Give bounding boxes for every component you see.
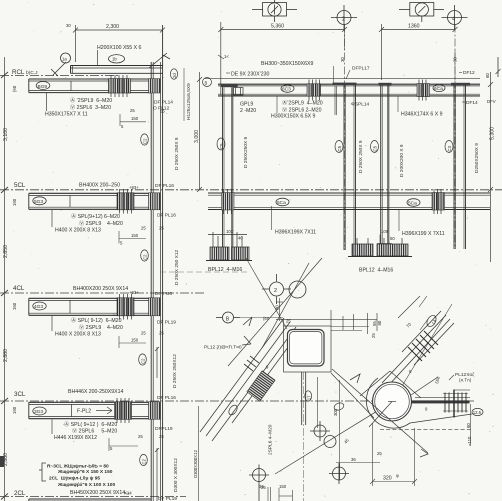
- dims 80 ~110 right side: [380, 404, 473, 446]
- grid line 4 dash: [454, 25, 456, 250]
- splice hatch on BG beam: [109, 79, 131, 93]
- beam mark BG4 ellipse: [36, 82, 50, 90]
- bolt circle lower left: [249, 465, 269, 501]
- bottom left Japanese note block: [47, 464, 115, 488]
- pipe radius line: [369, 402, 392, 428]
- svg-text:DF PL16: DF PL16: [155, 183, 174, 189]
- svg-text:D 200X200 X 9: D 200X200 X 9: [399, 144, 405, 177]
- svg-text:Ⓐ SPL( 9-12) 6–M20: Ⓐ SPL( 9-12) 6–M20: [71, 316, 122, 324]
- splice hatch right beam: [417, 84, 430, 97]
- svg-text:150: 150: [131, 338, 139, 343]
- svg-text:ΦSPL14: ΦSPL14: [351, 102, 370, 108]
- slashed circle (brace axis marker): [289, 281, 306, 298]
- svg-text:1360: 1360: [408, 24, 420, 30]
- svg-text:Ⓥ 2SPL6 3–M20: Ⓥ 2SPL6 3–M20: [70, 103, 111, 111]
- svg-text:2: 2: [274, 288, 277, 294]
- svg-text:GPL9: GPL9: [240, 102, 253, 108]
- svg-text:C3: C3: [447, 145, 452, 151]
- dim 80 vertical at top of detail: [276, 298, 283, 321]
- svg-text:Ⓥ 2SPL6 2–M20: Ⓥ 2SPL6 2–M20: [282, 106, 322, 114]
- svg-text:Жщφжψṗẋ"6 X 100 X 100: Жщφжψṗẋ"6 X 100 X 100: [57, 482, 115, 488]
- svg-text:1a: 1a: [62, 57, 67, 62]
- pipe inner ring: [375, 384, 410, 419]
- column joint hatch at RCL: [149, 79, 161, 93]
- beam mark 3G3: [33, 407, 46, 415]
- svg-text:5Ca: 5Ca: [277, 200, 286, 206]
- svg-text:DFV: DFV: [487, 99, 496, 104]
- marker ellipse on centerline: [333, 402, 345, 412]
- svg-text:R~3CL ЖЩзψльт-ЬṽЬ = 80: R~3CL ЖЩзψльт-ЬṽЬ = 80: [47, 464, 109, 470]
- svg-text:H396X199X 7X11: H396X199X 7X11: [275, 230, 316, 236]
- svg-text:2SPL6 4–M20: 2SPL6 4–M20: [268, 424, 274, 455]
- svg-text:2d: 2d: [172, 73, 177, 78]
- svg-text:1b: 1b: [112, 57, 117, 62]
- level tick 3CL: [1, 398, 8, 404]
- 70 dim ticks: [419, 296, 428, 330]
- column A (mid-elev left): [223, 87, 233, 247]
- left edge smudge: [0, 456, 4, 467]
- column joint hatch 4CL: [149, 298, 161, 316]
- top of steel line: [205, 78, 480, 80]
- svg-text:25: 25: [261, 485, 266, 490]
- svg-text:RCL b(C.J: RCL b(C.J: [12, 69, 38, 76]
- splice hatch 4CL: [117, 298, 134, 316]
- diagonal line to square corner: [246, 258, 287, 329]
- svg-text:H400 X 200X 8 X13: H400 X 200X 8 X13: [55, 228, 101, 234]
- slash axis steep through circle: [262, 263, 309, 348]
- svg-text:C2: C2: [143, 138, 148, 144]
- svg-text:6Ca: 6Ca: [434, 86, 443, 92]
- column mark ellipses mid elevation: [217, 138, 343, 153]
- splice hatch mid beam: [307, 84, 321, 96]
- 5CL level line: [0, 189, 502, 191]
- svg-text:H350X175X7 X 11: H350X175X7 X 11: [45, 112, 88, 118]
- svg-text:36: 36: [351, 457, 356, 462]
- top tick near column: [218, 55, 224, 59]
- brace from square to lower right with arrow: [331, 369, 428, 457]
- svg-text:100: 100: [381, 229, 389, 234]
- 4CL level line: [0, 292, 206, 294]
- svg-text:C2: C2: [141, 358, 146, 364]
- svg-text:5Ca: 5Ca: [408, 201, 417, 207]
- right column (grid B side): [381, 85, 389, 246]
- brace rung ticks: [244, 356, 259, 371]
- svg-text:φ: φ: [396, 473, 399, 478]
- svg-text:DF12: DF12: [463, 70, 475, 76]
- svg-text:BH400X200 250X 9X14: BH400X200 250X 9X14: [73, 286, 128, 292]
- svg-text:3,000: 3,000: [194, 130, 200, 143]
- svg-text:4G3: 4G3: [34, 304, 43, 310]
- svg-text:C5: C5: [219, 143, 224, 149]
- pipe center tick: [388, 401, 396, 403]
- svg-text:5CL: 5CL: [14, 182, 26, 189]
- svg-text:+93+: +93+: [129, 290, 139, 295]
- faint guide under label: [160, 271, 250, 273]
- svg-text:D 250X 250X12: D 250X 250X12: [172, 354, 178, 388]
- 3CL level line / detail centerline: [0, 400, 474, 402]
- svg-text:150: 150: [131, 116, 139, 121]
- level labels: [12, 69, 38, 497]
- dim 300 vertical lines: [318, 377, 340, 480]
- svg-text:25: 25: [159, 331, 164, 336]
- svg-text:C5: C5: [337, 145, 342, 151]
- svg-text:C5: C5: [373, 145, 378, 151]
- marker circle 1b top: [61, 53, 125, 63]
- svg-text:D 250X 250X 9: D 250X 250X 9: [358, 140, 364, 173]
- left margin dimension line: [4, 57, 6, 501]
- brace member upper right (to pipe): [382, 311, 454, 387]
- joint hatch at column A 5CL: [222, 193, 235, 210]
- column joint hatch 5CL: [149, 193, 161, 210]
- right edge scan marks: [497, 57, 499, 77]
- diagonal from pipe center to lower-left: [275, 403, 391, 475]
- dim 1360: [379, 24, 458, 80]
- top dimension line of detail: [276, 310, 377, 334]
- storey dims rotated: [3, 128, 9, 466]
- splice hatch right 5CL beam: [432, 193, 445, 210]
- svg-text:25: 25: [141, 331, 146, 336]
- grid line B horizontal: [240, 317, 283, 319]
- svg-text:DFPL17: DFPL17: [352, 66, 370, 72]
- 320 dia dimension: [370, 423, 417, 486]
- grid circle B small left: [203, 78, 212, 87]
- svg-text:3CL: 3CL: [14, 391, 26, 398]
- mid beam mark ellipse 6C3: [281, 85, 294, 93]
- square tube column 250 (plan): [288, 330, 325, 367]
- svg-text:H300X150X 6.5X 9: H300X150X 6.5X 9: [271, 114, 316, 120]
- pipe outer ring: [373, 382, 412, 421]
- bracket right of column A: [234, 88, 244, 96]
- svg-text:BH446X 200-250X9X14: BH446X 200-250X9X14: [68, 389, 123, 395]
- svg-text:(90: (90: [12, 85, 17, 92]
- right margin dim line 5,300: [488, 72, 493, 262]
- column stem below square: [302, 372, 306, 425]
- svg-text:25: 25: [159, 434, 164, 439]
- 2CL beam top flange: [29, 499, 151, 501]
- cap plate column 2: [333, 83, 357, 85]
- brace mark ellipse 14: [425, 314, 438, 328]
- svg-text:80: 80: [377, 320, 382, 325]
- svg-text:40: 40: [238, 236, 243, 241]
- svg-text:D 250X 250 X12: D 250X 250 X12: [174, 249, 180, 285]
- svg-text:DF PL19: DF PL19: [157, 320, 176, 326]
- svg-text:~110: ~110: [467, 436, 472, 446]
- column marks right elevation: [371, 141, 454, 153]
- svg-text:(60: (60: [263, 316, 270, 321]
- svg-text:2CL Шẏжψл-Lṽμ ψ 95: 2CL Шẏжψл-Lṽμ ψ 95: [49, 476, 100, 482]
- gusset wrap arc: [366, 378, 472, 428]
- bottom-centre small dims: [268, 487, 293, 501]
- level tick 2CL: [1, 494, 8, 500]
- svg-text:DF PU6: DF PU6: [155, 291, 172, 297]
- svg-text:H125x125x6,5X9: H125x125x6,5X9: [186, 83, 192, 120]
- svg-text:30: 30: [340, 57, 345, 62]
- column centerline below: [303, 372, 305, 501]
- svg-text:3,100: 3,100: [3, 128, 9, 141]
- svg-text:(א.Tה): (א.Tה): [459, 378, 472, 383]
- svg-text:BPL12 4–M16: BPL12 4–M16: [359, 268, 393, 274]
- column joint hatch 3CL: [149, 402, 161, 420]
- 2CL level line: [0, 496, 186, 498]
- dim 2,300 at top: [73, 25, 165, 62]
- column cut mark at top: [51, 53, 170, 76]
- brace splice hatch (rotated): [247, 371, 275, 401]
- svg-text:2CL: 2CL: [14, 490, 26, 497]
- column size rotated labels: [172, 137, 180, 492]
- brace lines at pipe top: [360, 371, 438, 398]
- slashed bolt circle: [324, 436, 336, 448]
- inter-level dim arrow on column: [155, 347, 159, 378]
- marker 2d ellipse right of column at RCL: [170, 69, 177, 79]
- svg-text:30: 30: [66, 23, 71, 28]
- svg-text:DF PL16: DF PL16: [157, 213, 176, 219]
- svg-text:2,300: 2,300: [106, 24, 119, 30]
- inter-level dim arrow on column bottom: [155, 448, 159, 501]
- svg-text:D250X250X 9: D250X250X 9: [474, 143, 480, 173]
- note bracket: [39, 463, 46, 481]
- svg-text:DF PL16: DF PL16: [157, 395, 176, 401]
- svg-text:25: 25: [141, 226, 146, 231]
- svg-text:1<: 1<: [224, 54, 229, 59]
- svg-text:2,850: 2,850: [3, 245, 9, 258]
- gusset lines right of square: [331, 327, 369, 331]
- svg-text:B: B: [205, 80, 208, 85]
- svg-text:150: 150: [131, 233, 139, 238]
- svg-text:DFPL19: DFPL19: [155, 426, 173, 432]
- svg-text:Ⓥ 2SPL6 5–M20: Ⓥ 2SPL6 5–M20: [72, 427, 117, 435]
- svg-text:2,880: 2,880: [3, 349, 9, 362]
- small arrows top-left of detail: [242, 317, 252, 345]
- brace splice plates perpendicular: [408, 331, 438, 361]
- svg-text:150: 150: [12, 302, 17, 310]
- base plate detail left (grid A/2 columns): [208, 232, 247, 247]
- 5CL beams middle/right H396X199: [208, 193, 490, 210]
- canopy beam H200X100: [71, 66, 163, 74]
- svg-text:PL12 ת×@(ק.T¤0: PL12 ת×@(ק.T¤0: [204, 345, 242, 351]
- svg-text:300: 300: [333, 408, 338, 416]
- cap plate: [379, 83, 392, 85]
- K arrow lower: [350, 374, 360, 383]
- svg-text:190: 190: [12, 198, 17, 206]
- svg-text:Ⓐ’2SPL9 4–M20: Ⓐ’2SPL9 4–M20: [282, 99, 323, 107]
- svg-text:25: 25: [130, 108, 135, 113]
- svg-text:17: 17: [307, 395, 312, 400]
- svg-text:Ⓥ 2SPL9 4–M20: Ⓥ 2SPL9 4–M20: [79, 219, 123, 227]
- diagonal brace member (upper-left, to lower-left): [200, 318, 300, 441]
- brace mark ellipse rotated: [227, 404, 239, 417]
- svg-text:25: 25: [138, 434, 143, 439]
- level tick 4CL: [1, 290, 8, 296]
- column mark ellipses C2: [139, 134, 149, 466]
- svg-text:2 -M20: 2 -M20: [240, 108, 256, 114]
- splice hatch 5CL: [117, 193, 134, 210]
- svg-text:3G3: 3G3: [34, 409, 43, 415]
- svg-text:2: 2: [342, 17, 345, 23]
- stub splice ticks: [445, 393, 466, 413]
- svg-text:BH450X200 250X 9X14→: BH450X200 250X 9X14→: [70, 490, 130, 496]
- level tick 5CL: [1, 187, 8, 193]
- svg-text:D 250X 250X 9: D 250X 250X 9: [174, 137, 180, 170]
- cap plate column A: [221, 84, 238, 87]
- svg-text:C2: C2: [142, 458, 147, 464]
- splice hatch 3CL: [115, 402, 132, 420]
- svg-text:H200X100 X55 X 6: H200X100 X55 X 6: [97, 45, 142, 51]
- base plates right elevation: [352, 244, 373, 256]
- cap plate grid4: [451, 83, 470, 85]
- svg-text:25: 25: [160, 109, 165, 114]
- brace axis thin extended: [402, 304, 452, 386]
- grid bubble B: [399, 3, 444, 23]
- svg-text:5,300: 5,300: [490, 127, 496, 140]
- beam mark 4G3: [33, 302, 46, 310]
- svg-text:100: 100: [226, 229, 234, 234]
- storey dim 3,000 line: [197, 72, 202, 192]
- leader for H200 label: [97, 50, 99, 65]
- svg-text:12.5: 12.5: [473, 410, 482, 415]
- svg-text:Ⓐ SPL(9+12) 6–M20: Ⓐ SPL(9+12) 6–M20: [71, 212, 120, 220]
- right beam mark 6Ca: [433, 84, 445, 91]
- svg-text:190: 190: [12, 406, 17, 414]
- svg-text:BH300~350X150X6X9: BH300~350X150X6X9: [261, 61, 313, 67]
- grid bubble A: [252, 0, 297, 22]
- svg-text:Ⓥ 2SPL9 4–M20: Ⓥ 2SPL9 4–M20: [79, 323, 123, 331]
- svg-text:25: 25: [159, 226, 164, 231]
- svg-text:H346X174X 6 X 9: H346X174X 6 X 9: [401, 112, 443, 118]
- svg-text:25: 25: [377, 451, 382, 456]
- eave beam BG H350X175: [29, 79, 151, 93]
- svg-text:BG9: BG9: [38, 84, 48, 90]
- svg-text:Ⓐ ’2SPL9 6–M20: Ⓐ ’2SPL9 6–M20: [70, 96, 112, 104]
- svg-text:D300X300X12: D300X300X12: [193, 449, 198, 478]
- marker ellipse 17 on stem: [305, 391, 312, 401]
- brace axis NE-SW through slashed circle: [228, 258, 322, 366]
- svg-text:C2: C2: [143, 254, 148, 260]
- column 2 (grid 2): [335, 85, 356, 250]
- svg-text:DF14: DF14: [466, 100, 478, 106]
- svg-text:5,360: 5,360: [271, 24, 284, 30]
- svg-text:6C3: 6C3: [282, 87, 291, 93]
- stub end plate: [453, 390, 455, 418]
- svg-text:50: 50: [390, 236, 395, 241]
- grid circle 2 (plan): [262, 274, 291, 304]
- svg-text:DF PL19: DF PL19: [158, 496, 177, 501]
- svg-text:F-PL2: F-PL2: [77, 409, 91, 415]
- 5CL right beam mark: [407, 199, 420, 207]
- svg-text:DE 9X 230X’230: DE 9X 230X’230: [231, 72, 269, 78]
- svg-text:BH400X 200–250: BH400X 200–250: [79, 183, 120, 189]
- svg-text:B: B: [226, 316, 230, 322]
- svg-text:4: 4: [452, 17, 455, 23]
- svg-text:25: 25: [371, 333, 376, 338]
- svg-text:150: 150: [279, 484, 287, 489]
- svg-text:4CL: 4CL: [13, 285, 25, 292]
- outer gusset square: [284, 326, 332, 372]
- svg-text:H396X199 X 7X11: H396X199 X 7X11: [402, 231, 445, 237]
- grid circle B (plan): [216, 312, 240, 323]
- marker (2.5) ellipse: [472, 408, 483, 415]
- small level offset dims rotated (190): [12, 85, 17, 414]
- column grid 4: [454, 85, 466, 249]
- right-of-column lower dim line: [198, 406, 200, 501]
- level tick RCL: [1, 72, 8, 78]
- svg-text:H400 X 200X 8 X13: H400 X 200X 8 X13: [55, 332, 101, 338]
- dim 5,360: [218, 22, 347, 95]
- grid line 2 dash: [344, 25, 346, 251]
- svg-text:320: 320: [383, 476, 392, 482]
- svg-text:H446 X199X 8X12: H446 X199X 8X12: [54, 435, 97, 441]
- RCL level line: [0, 75, 118, 77]
- svg-text:5G3: 5G3: [34, 199, 43, 205]
- bolt circle on stem: [310, 421, 330, 441]
- svg-text:D 250X250X 9: D 250X250X 9: [243, 136, 249, 168]
- grid bubble 4: [442, 5, 468, 30]
- svg-text:+93+: +93+: [129, 185, 139, 190]
- svg-text:80: 80: [466, 423, 471, 428]
- grid bubble 2: [331, 5, 357, 30]
- svg-text:60: 60: [485, 73, 490, 78]
- beam stub right of pipe (dark): [412, 400, 470, 403]
- svg-text:DF PL14: DF PL14: [154, 100, 173, 106]
- beam mark 5G3: [33, 197, 46, 205]
- svg-text:Ⓐ SPL( 9+12 ) 6–M20: Ⓐ SPL( 9+12 ) 6–M20: [64, 420, 117, 428]
- svg-text:Жщφжψṗ"6 X 150 X 150: Жщφжψṗ"6 X 150 X 150: [57, 469, 113, 475]
- left column (box column D250): [151, 25, 162, 501]
- svg-text:X14: X14: [124, 491, 132, 496]
- bolt circle lower middle: [329, 463, 349, 484]
- middle beam H300X150: [218, 84, 480, 96]
- 5CL mid beam mark: [276, 198, 289, 206]
- svg-text:D300 X 300X12: D300 X 300X12: [173, 458, 179, 492]
